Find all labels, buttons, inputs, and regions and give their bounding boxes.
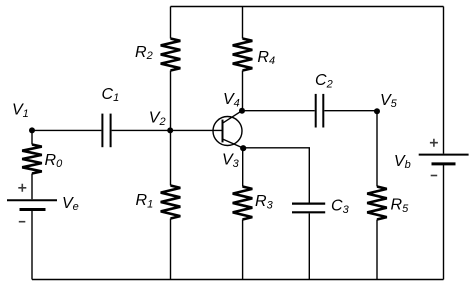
wire V4 to C2 — [242, 110, 315, 112]
wire top rail — [171, 6, 444, 8]
wire V1 to C1 — [32, 129, 101, 131]
battery Ve — [7, 200, 57, 209]
svg-text:V1: V1 — [12, 102, 29, 120]
wire R2 through V2 to R1 — [170, 71, 172, 186]
node V2 — [167, 127, 173, 133]
battery Ve plus — [18, 184, 26, 192]
wire top rail to R4 — [242, 7, 244, 39]
wire top rail to R2 — [170, 7, 172, 39]
svg-text:V3: V3 — [222, 152, 240, 170]
svg-text:C2: C2 — [315, 72, 333, 90]
wire right rail upper — [443, 7, 445, 154]
svg-text:Ve: Ve — [62, 195, 79, 213]
node V1 — [29, 127, 35, 133]
svg-text:R3: R3 — [255, 193, 274, 211]
svg-text:C1: C1 — [102, 86, 120, 104]
wire R5 to bottom rail — [376, 220, 378, 280]
node V4 — [239, 108, 245, 114]
resistor R3 — [233, 187, 253, 220]
wire battery Ve to bottom rail — [31, 211, 33, 280]
resistor R1 — [161, 186, 181, 219]
svg-text:R4: R4 — [257, 49, 275, 67]
svg-text:V4: V4 — [223, 91, 240, 109]
capacitor C2 — [316, 94, 324, 128]
node V3 — [240, 145, 246, 151]
wire R1 to bottom rail — [170, 219, 172, 280]
node V5 — [374, 108, 380, 114]
wire V3 to R3 — [242, 148, 244, 187]
svg-text:Vb: Vb — [394, 153, 411, 171]
wire C2 to V5 — [324, 110, 377, 112]
resistor R2 — [161, 39, 181, 71]
svg-text:R0: R0 — [45, 152, 64, 170]
wire V5 to R5 — [376, 111, 378, 187]
svg-text:C3: C3 — [331, 198, 350, 216]
capacitor C3 — [292, 204, 325, 213]
wire R4 to node V4 — [242, 71, 244, 111]
battery Vb plus — [430, 139, 438, 147]
battery Ve minus — [19, 221, 26, 223]
svg-text:R1: R1 — [136, 192, 154, 210]
resistor R4 — [233, 39, 253, 71]
wire C1 to base — [112, 129, 223, 131]
wire bottom rail — [32, 279, 444, 281]
wire V3 right to C3 branch — [243, 148, 309, 203]
svg-text:V5: V5 — [380, 92, 398, 110]
wire R3 to bottom rail — [242, 220, 244, 280]
wire C3 to bottom rail — [308, 213, 310, 279]
wire R0 to battery Ve — [31, 174, 33, 200]
svg-text:V2: V2 — [149, 110, 166, 128]
wire V1 to R0 — [31, 130, 33, 144]
capacitor C1 — [102, 114, 110, 148]
transistor Q1 — [213, 111, 243, 148]
resistor R5 — [367, 187, 387, 220]
battery Vb minus — [431, 175, 438, 177]
resistor R0 — [22, 145, 42, 174]
battery Vb — [419, 155, 469, 164]
svg-text:R2: R2 — [135, 44, 153, 62]
wire right rail lower — [443, 165, 445, 280]
svg-text:R5: R5 — [391, 197, 410, 215]
